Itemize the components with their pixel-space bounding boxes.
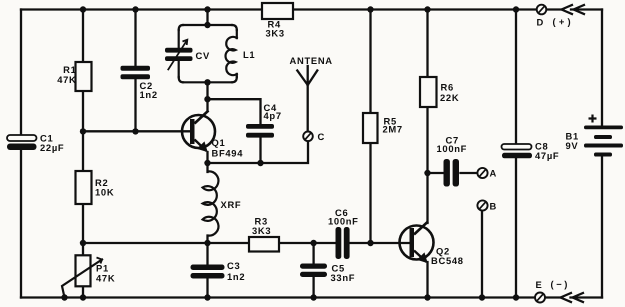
svg-text:1n2: 1n2 (227, 271, 245, 282)
svg-text:A: A (490, 168, 497, 179)
svg-text:9V: 9V (566, 140, 579, 151)
svg-text:BC548: BC548 (431, 255, 464, 266)
svg-text:(+): (+) (553, 16, 574, 27)
svg-text:C3: C3 (227, 260, 240, 271)
svg-text:22K: 22K (440, 92, 459, 103)
svg-text:100nF: 100nF (437, 143, 468, 154)
svg-text:1n2: 1n2 (140, 89, 158, 100)
svg-text:CV: CV (196, 50, 210, 61)
svg-text:(−): (−) (551, 279, 571, 290)
svg-text:47K: 47K (96, 273, 115, 284)
svg-text:22µF: 22µF (40, 142, 64, 153)
svg-text:B: B (490, 201, 497, 212)
svg-text:D: D (537, 17, 544, 28)
svg-text:47K: 47K (57, 74, 76, 85)
svg-text:47µF: 47µF (535, 150, 559, 161)
svg-text:E: E (536, 279, 543, 290)
svg-text:4p7: 4p7 (264, 110, 282, 121)
svg-text:2M7: 2M7 (383, 124, 403, 135)
svg-text:C: C (318, 131, 325, 142)
svg-text:BF494: BF494 (212, 148, 244, 159)
svg-text:3K3: 3K3 (252, 225, 271, 236)
svg-text:10K: 10K (95, 187, 114, 198)
svg-text:ANTENA: ANTENA (290, 55, 333, 66)
svg-text:L1: L1 (243, 49, 255, 60)
svg-text:100nF: 100nF (328, 216, 359, 227)
svg-text:33nF: 33nF (331, 272, 356, 283)
svg-text:XRF: XRF (221, 199, 242, 210)
svg-text:R6: R6 (441, 82, 454, 93)
svg-text:3K3: 3K3 (266, 28, 285, 39)
svg-text:Q1: Q1 (212, 137, 226, 148)
